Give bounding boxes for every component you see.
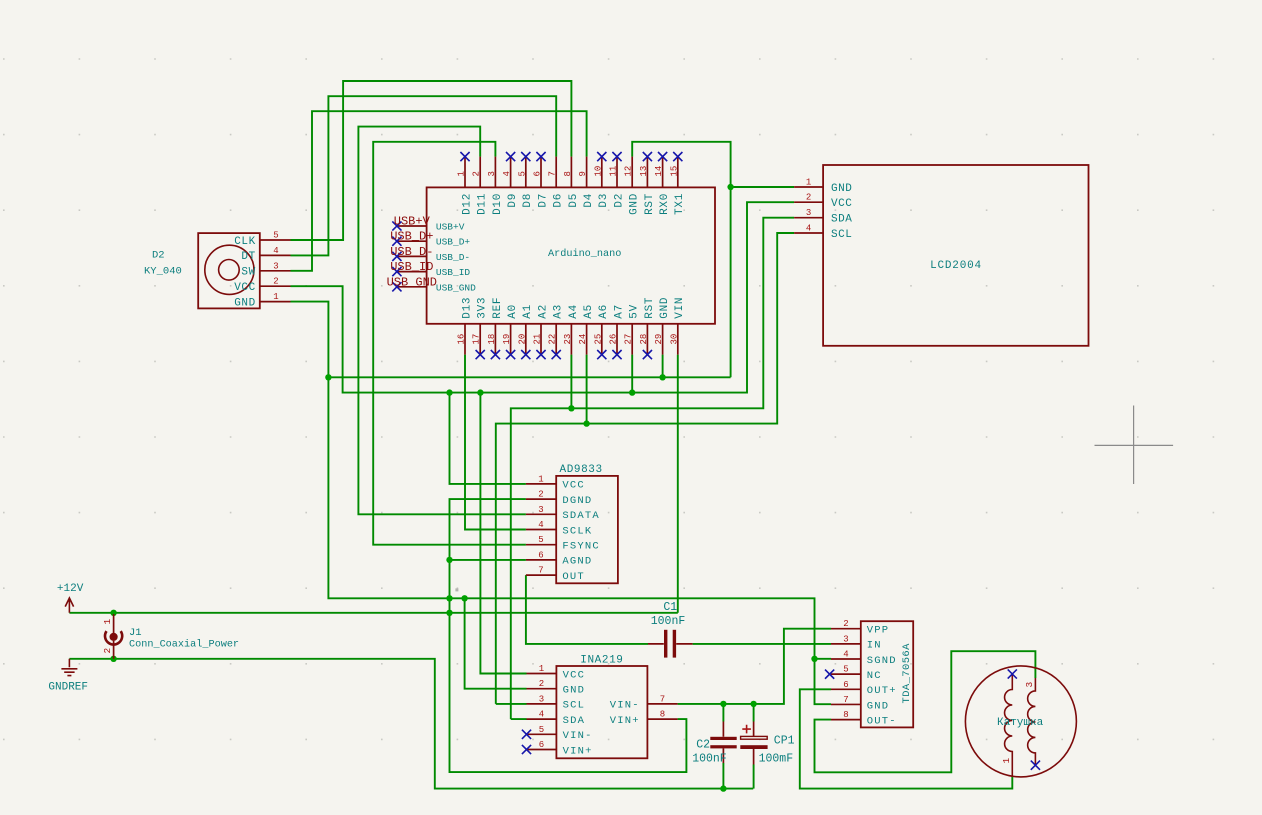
svg-text:REF: REF (492, 297, 504, 319)
ground symbol GNDREF (48, 659, 88, 694)
svg-text:GND: GND (831, 183, 852, 195)
svg-text:SCL: SCL (831, 229, 852, 241)
no-connect X Arduino USB_D+ (392, 237, 401, 246)
svg-text:5V: 5V (629, 304, 641, 319)
svg-text:SDA: SDA (831, 214, 852, 226)
wire GND rail branch to INA GND pin2 (465, 598, 527, 688)
junction pin29 GND (659, 374, 665, 380)
no-connect X INA219 VIN+ pin6 (522, 745, 531, 754)
svg-text:24: 24 (578, 334, 588, 345)
svg-text:7: 7 (548, 171, 558, 176)
svg-text:USB_ID: USB_ID (436, 267, 471, 278)
svg-text:AD9833: AD9833 (560, 464, 603, 476)
no-connect X Arduino pin22 (552, 350, 561, 359)
svg-text:D5: D5 (568, 193, 580, 208)
svg-text:30: 30 (669, 334, 679, 345)
svg-text:USB_GND: USB_GND (436, 282, 476, 293)
rotary encoder D2 KY_040 (144, 231, 291, 310)
svg-text:17: 17 (472, 334, 482, 345)
no-connect X Arduino pin6 (536, 152, 545, 161)
svg-text:D10: D10 (492, 193, 504, 215)
svg-text:4: 4 (502, 171, 512, 176)
no-connect X Arduino pin20 (521, 350, 530, 359)
wire VIN- / C2 / CP1 top to TDA VPP pin2 (678, 629, 831, 704)
svg-text:14: 14 (654, 166, 664, 177)
IC LCD2004 display (794, 165, 1088, 346)
svg-text:5: 5 (538, 535, 543, 545)
no-connect X Arduino pin18 (491, 350, 500, 359)
junction pin23 A4 (568, 405, 574, 411)
wire SCL net: Arduino pin24 A5 drop (586, 355, 588, 424)
wire SDA net bus to LCD SDA and INA SDA (511, 218, 794, 719)
svg-text:+12V: +12V (57, 583, 84, 595)
junction GND rail x464 (461, 595, 467, 601)
no-connect X Arduino pin26 (612, 350, 621, 359)
wire C2 bottom lead wire (722, 763, 724, 789)
capacitor C2 100nF (692, 722, 737, 766)
svg-text:D11: D11 (477, 193, 489, 215)
svg-text:USB_ID: USB_ID (390, 260, 433, 274)
svg-text:VCC: VCC (562, 480, 585, 492)
svg-text:1: 1 (102, 619, 113, 625)
IC AD9833 DDS module (526, 464, 618, 584)
svg-text:D3: D3 (598, 193, 610, 208)
svg-text:LCD2004: LCD2004 (930, 260, 982, 272)
no-connect X Arduino pin1 (460, 152, 469, 161)
connector J1 Conn_Coaxial_Power (102, 614, 239, 659)
svg-text:1: 1 (273, 292, 278, 302)
svg-text:3: 3 (273, 261, 278, 271)
svg-text:4: 4 (273, 246, 278, 256)
svg-text:USB_D-: USB_D- (390, 245, 433, 259)
junction GND rail x449 (446, 595, 452, 601)
svg-text:RX0: RX0 (659, 193, 671, 215)
svg-text:29: 29 (654, 334, 664, 345)
svg-text:2: 2 (539, 679, 544, 689)
svg-text:21: 21 (533, 334, 543, 345)
svg-text:SDATA: SDATA (562, 510, 600, 522)
svg-text:8: 8 (843, 710, 848, 720)
junction VIN-/CP1 (750, 701, 756, 707)
wire GNDREF rail down and along bottom to C2/CP1 (69, 659, 753, 789)
wire D5 net: Arduino pin8 to encoder CLK (291, 81, 572, 240)
svg-text:TX1: TX1 (674, 193, 686, 215)
wire D11 net: Arduino pin2 to AD9833 SDATA (358, 127, 526, 515)
wire +12V rail to Arduino VIN pin30 (69, 355, 677, 613)
svg-text:13: 13 (639, 166, 649, 177)
svg-text:VCC: VCC (563, 669, 586, 681)
wire VCC branch to AD9833 VCC pin1 (450, 393, 526, 484)
svg-text:4: 4 (843, 650, 848, 660)
svg-text:VIN-: VIN- (610, 700, 640, 712)
wire OUT- : TDA pin8 to coil pin3 (815, 651, 1036, 772)
junction VCC/AD9833 (446, 389, 452, 395)
svg-text:GND: GND (234, 297, 256, 309)
power symbol +12V (57, 583, 84, 613)
no-connect X Arduino USB_D- (392, 252, 401, 261)
IC INA219 current sensor (527, 655, 678, 759)
no-connect X Arduino pin25 (597, 350, 606, 359)
svg-text:A6: A6 (598, 304, 610, 319)
svg-text:2: 2 (102, 648, 113, 654)
wire AGND/DGND chain down to INA VIN+ pin8 (450, 499, 687, 772)
wire OUT+ : TDA pin6 to coil pin1 (800, 689, 1013, 788)
svg-text:VIN: VIN (674, 297, 686, 319)
svg-text:SGND: SGND (867, 655, 897, 667)
no-connect X INA219 VIN- pin5 (522, 730, 531, 739)
wire C1 to TDA IN pin3 (693, 643, 831, 645)
svg-text:OUT+: OUT+ (867, 685, 897, 697)
no-connect X Arduino pin19 (506, 350, 515, 359)
svg-text:C1: C1 (663, 601, 677, 614)
wire GND: SGND branch to TDA pin4 (815, 658, 832, 660)
no-connect X Arduino pin5 (521, 152, 530, 161)
svg-text:A3: A3 (553, 304, 565, 319)
svg-text:6: 6 (539, 740, 544, 750)
junction AGND (446, 557, 452, 563)
svg-text:15: 15 (669, 166, 679, 177)
no-connect X Arduino pin15 (673, 152, 682, 161)
svg-text:GND: GND (867, 700, 890, 712)
svg-text:28: 28 (639, 334, 649, 345)
svg-text:6: 6 (538, 550, 543, 560)
svg-text:A7: A7 (613, 304, 625, 319)
svg-text:4: 4 (538, 520, 543, 530)
gray anchor mark (455, 588, 458, 591)
svg-text:23: 23 (563, 334, 573, 345)
capacitor C1 100nF (648, 601, 693, 658)
svg-text:KY_040: KY_040 (144, 266, 182, 278)
svg-text:9: 9 (578, 171, 588, 176)
svg-text:10: 10 (593, 166, 603, 177)
svg-text:DT: DT (241, 251, 255, 263)
no-connect X Arduino pin10 (597, 152, 606, 161)
junction pin24 A5 (583, 420, 589, 426)
no-connect X Arduino USB+V (392, 221, 401, 230)
no-connect X Arduino pin11 (612, 152, 621, 161)
svg-text:VPP: VPP (867, 625, 890, 637)
wire GND: encoder GND to GND rail then TDA GND pin7 (291, 302, 832, 705)
svg-text:D8: D8 (522, 193, 534, 208)
svg-text:3: 3 (1024, 682, 1035, 688)
svg-text:A5: A5 (583, 304, 595, 319)
IC U? Arduino_nano module (397, 157, 715, 355)
svg-text:D12: D12 (461, 193, 473, 215)
wire D4 net: Arduino pin9 to encoder SW (291, 111, 587, 271)
junction +12V J1 (110, 610, 116, 616)
svg-text:SCL: SCL (563, 700, 586, 712)
svg-text:100nF: 100nF (692, 752, 727, 765)
svg-text:J1: J1 (129, 627, 142, 639)
svg-text:USB+V: USB+V (394, 215, 431, 229)
svg-text:Conn_Coaxial_Power: Conn_Coaxial_Power (129, 639, 239, 651)
svg-text:18: 18 (487, 334, 497, 345)
svg-text:2: 2 (806, 193, 811, 203)
wire VCC net: encoder VCC along y392 up to LCD VCC pin2 (291, 202, 795, 392)
crosshair cursor marker (1095, 406, 1174, 485)
wire VCC: Arduino pin27 5V drop (631, 355, 633, 393)
inductor coil Катушка (transformer in circle) (965, 666, 1076, 777)
svg-text:8: 8 (660, 710, 665, 720)
svg-text:D4: D4 (583, 193, 595, 208)
svg-text:3: 3 (487, 171, 497, 176)
svg-text:26: 26 (609, 334, 619, 345)
svg-text:C2: C2 (696, 738, 710, 751)
svg-text:USB+V: USB+V (436, 222, 465, 233)
svg-text:VCC: VCC (234, 282, 256, 294)
svg-text:TDA_7056A: TDA_7056A (901, 643, 913, 704)
svg-text:GND: GND (629, 193, 641, 215)
wire AGND branch AD9833 pin6 (450, 559, 526, 561)
wire SDA net: Arduino pin23 A4 drop (570, 355, 572, 409)
no-connect X Arduino pin28 (643, 350, 652, 359)
svg-text:2: 2 (843, 619, 848, 629)
wire CP1 bottom lead wire (753, 765, 755, 789)
svg-text:CLK: CLK (234, 236, 256, 248)
no-connect X Arduino pin14 (658, 152, 667, 161)
svg-text:5: 5 (539, 725, 544, 735)
svg-text:SW: SW (241, 267, 255, 279)
no-connect X Arduino USB_ID (392, 267, 401, 276)
polarized capacitor CP1 100mF (740, 722, 794, 766)
junction GND y377 left (325, 374, 331, 380)
svg-text:D6: D6 (553, 193, 565, 208)
junction GND bottom/C2 (720, 785, 726, 791)
wire GND: LCD pin1 branch (731, 186, 795, 188)
svg-text:11: 11 (609, 166, 619, 177)
junction pin12/LCD GND (727, 184, 733, 190)
no-connect X Arduino USB_GND (392, 282, 401, 291)
svg-text:A1: A1 (522, 304, 534, 319)
junction pin27 5V (629, 389, 635, 395)
svg-text:27: 27 (624, 334, 634, 345)
svg-text:USB_D-: USB_D- (436, 252, 470, 263)
wire D10 net: Arduino pin3 to AD9833 FSYNC (373, 142, 526, 545)
svg-text:1: 1 (806, 178, 811, 188)
svg-text:VIN+: VIN+ (563, 745, 593, 757)
no-connect X coil pin bottom-right (1031, 761, 1040, 770)
wire GND: Arduino pin29 drop (662, 355, 664, 378)
svg-text:Arduino_nano: Arduino_nano (548, 248, 621, 260)
svg-text:GND: GND (659, 297, 671, 319)
svg-text:1: 1 (539, 664, 544, 674)
svg-text:5: 5 (517, 171, 527, 176)
svg-text:D13: D13 (461, 297, 473, 319)
svg-text:DGND: DGND (562, 495, 592, 507)
no-connect X TDA NC pin5 (825, 670, 834, 679)
svg-text:25: 25 (593, 334, 603, 345)
junction VIN-/C2 (720, 701, 726, 707)
svg-text:VIN+: VIN+ (610, 715, 640, 727)
wire SCLK net: Arduino pin16 D13 to AD9833 SCLK (465, 355, 526, 530)
svg-text:2: 2 (273, 277, 278, 287)
svg-text:3: 3 (538, 505, 543, 515)
svg-text:USB_GND: USB_GND (387, 275, 437, 289)
svg-text:3: 3 (806, 208, 811, 218)
svg-text:4: 4 (539, 710, 544, 720)
coil right winding pin3 (1028, 678, 1036, 765)
no-connect X Arduino pin21 (536, 350, 545, 359)
svg-text:100nF: 100nF (651, 615, 686, 628)
svg-text:A4: A4 (568, 304, 580, 319)
svg-text:8: 8 (563, 171, 573, 176)
svg-text:7: 7 (843, 695, 848, 705)
svg-text:3: 3 (539, 694, 544, 704)
svg-text:Катушка: Катушка (997, 717, 1044, 729)
wire CP1 top lead wire (753, 704, 755, 722)
svg-text:GND: GND (563, 685, 586, 697)
svg-text:IN: IN (867, 640, 882, 652)
svg-text:NC: NC (867, 670, 882, 682)
svg-text:22: 22 (548, 334, 558, 345)
svg-text:AGND: AGND (562, 556, 592, 568)
svg-text:RST: RST (644, 297, 656, 319)
svg-text:OUT: OUT (562, 571, 585, 583)
svg-text:12: 12 (624, 166, 634, 177)
svg-text:D2: D2 (152, 250, 165, 262)
IC TDA_7056A audio amplifier (831, 619, 913, 727)
svg-text:7: 7 (538, 566, 543, 576)
junction +12V x449 (446, 610, 452, 616)
svg-text:USB_D+: USB_D+ (436, 237, 471, 248)
wire AD9833 OUT to C1 (526, 575, 648, 644)
svg-text:2: 2 (472, 171, 482, 176)
svg-text:GNDREF: GNDREF (48, 682, 88, 694)
junction SGND (811, 656, 817, 662)
svg-text:D9: D9 (507, 193, 519, 208)
svg-text:4: 4 (806, 224, 811, 234)
svg-text:1: 1 (1001, 758, 1012, 764)
svg-text:OUT-: OUT- (867, 715, 897, 727)
wire D6 net: Arduino pin7 to encoder DT (291, 96, 557, 255)
wire C2 top lead wire (722, 704, 724, 722)
svg-text:USB_D+: USB_D+ (390, 230, 433, 244)
svg-text:VCC: VCC (831, 198, 852, 210)
svg-text:5: 5 (273, 231, 278, 241)
svg-text:20: 20 (517, 334, 527, 345)
svg-text:FSYNC: FSYNC (562, 541, 600, 553)
svg-text:A0: A0 (507, 304, 519, 319)
svg-text:100mF: 100mF (759, 752, 794, 765)
svg-text:7: 7 (660, 694, 665, 704)
wire GND: Arduino pin12 up over to LCD GND and down (632, 142, 730, 377)
no-connect X Arduino pin13 (643, 152, 652, 161)
no-connect X Arduino pin4 (506, 152, 515, 161)
no-connect X Arduino pin17 (476, 350, 485, 359)
junction VCC/INA219 (477, 389, 483, 395)
coil left winding pin1 (1005, 675, 1013, 776)
svg-text:5: 5 (843, 665, 848, 675)
junction GNDREF J1 (110, 656, 116, 662)
svg-text:VIN-: VIN- (563, 730, 593, 742)
svg-text:6: 6 (843, 680, 848, 690)
no-connect X coil pin top-left (1008, 669, 1017, 678)
svg-text:19: 19 (502, 334, 512, 345)
svg-text:16: 16 (457, 334, 467, 345)
svg-text:1: 1 (457, 171, 467, 176)
svg-text:6: 6 (533, 171, 543, 176)
svg-text:1: 1 (538, 474, 543, 484)
svg-text:3V3: 3V3 (477, 297, 489, 319)
svg-text:3: 3 (843, 634, 848, 644)
wire VCC branch to INA219 VCC pin1 (480, 393, 526, 674)
svg-text:A2: A2 (537, 304, 549, 319)
svg-text:RST: RST (644, 193, 656, 215)
svg-text:INA219: INA219 (580, 655, 623, 667)
svg-text:SDA: SDA (563, 715, 586, 727)
svg-text:2: 2 (538, 490, 543, 500)
svg-text:D2: D2 (613, 193, 625, 208)
wire GND bus y377 (328, 376, 730, 378)
svg-text:SCLK: SCLK (562, 525, 592, 537)
svg-text:CP1: CP1 (774, 735, 795, 748)
svg-text:D7: D7 (537, 193, 549, 208)
wire SCL net bus to LCD SCL and INA SCL (496, 233, 794, 704)
